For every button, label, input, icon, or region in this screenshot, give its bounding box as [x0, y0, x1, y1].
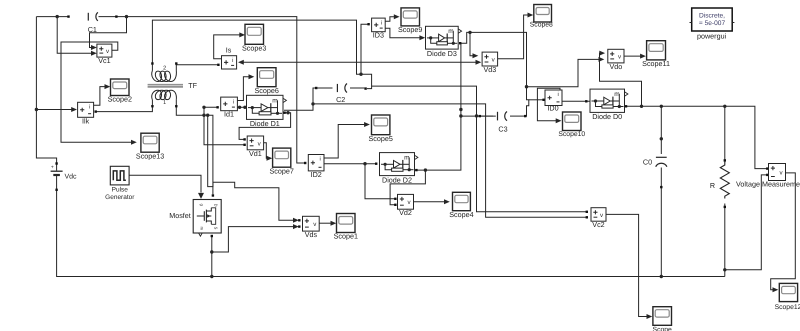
wire C1 top net: [36, 15, 304, 163]
wire Is i output to Scope3: [214, 32, 245, 58]
wire Mosfet source to Vds minus: [212, 224, 301, 252]
svg-text:D: D: [214, 204, 219, 207]
svg-text:R: R: [710, 181, 715, 190]
diode block D2: [380, 153, 418, 185]
wire Vc2 output to bottom Scope: [606, 214, 652, 319]
wire Vd3 output to Scope8: [498, 13, 534, 59]
svg-text:ID3: ID3: [373, 31, 384, 40]
svg-text:Scope9: Scope9: [398, 25, 422, 34]
wire Ilk plus input: [36, 107, 77, 112]
voltage measurement Vdo: [608, 49, 624, 71]
wire branch to Vd3 plus: [470, 32, 478, 58]
wire Diode D0 cathode rail: [625, 105, 769, 170]
capacitor C0: [643, 157, 667, 167]
svg-text:Scope10: Scope10: [558, 131, 585, 138]
svg-text:Scope11: Scope11: [642, 59, 670, 68]
svg-text:+: +: [51, 165, 54, 171]
svg-text:Pulse: Pulse: [112, 187, 129, 194]
wire ID2 i output to Scope5: [324, 122, 370, 158]
wire branch to ID3 plus: [361, 23, 370, 74]
capacitor C1: [88, 12, 98, 34]
wire Diode D1 cathode to C2 net: [284, 87, 317, 110]
wire Vc1 plus input: [90, 17, 127, 50]
wire Diode D3 cathode loop: [459, 31, 529, 118]
wire VM minus: [725, 174, 769, 270]
wire Pulse Generator to Mosfet gate: [129, 175, 204, 199]
svg-text:Scope: Scope: [653, 327, 672, 331]
scope Scope12: [775, 283, 800, 310]
svg-text:Vdo: Vdo: [610, 62, 623, 71]
svg-text:i: i: [232, 57, 233, 64]
svg-text:Voltage Measurement: Voltage Measurement: [736, 180, 800, 189]
wire Ilk minus to TF winding1 left: [95, 105, 154, 113]
powergui block: [690, 8, 735, 41]
dc source Vdc: [51, 162, 77, 191]
diode block D3: [426, 26, 462, 58]
diode block D0: [590, 89, 628, 121]
current measurement ID3: [372, 18, 386, 40]
svg-text:Scope4: Scope4: [449, 210, 473, 219]
wire branch to Vds plus: [208, 115, 301, 223]
svg-text:Generator: Generator: [105, 194, 135, 201]
svg-text:Scope2: Scope2: [108, 95, 132, 104]
current measurement ID2: [308, 155, 324, 179]
resistor R: [710, 163, 729, 199]
current measurement ID0: [545, 90, 562, 113]
capacitor C2: [317, 84, 365, 105]
wire TF top-right to Is: [175, 62, 219, 66]
scope Scope8: [530, 5, 553, 29]
wire ground rail bottom: [57, 191, 725, 279]
svg-text:i: i: [381, 19, 382, 26]
wire ID0 minus to Diode D0: [562, 100, 594, 102]
wire C0 top lead: [660, 106, 663, 154]
wire branch to Vd1 minus: [204, 107, 246, 146]
wire left rail to Vdc: [35, 17, 57, 164]
wire Ilk i output to Scope2: [94, 84, 111, 105]
wire ID3 i output to Scope9: [385, 14, 399, 21]
wire Vd2 output to Scope4: [414, 199, 450, 204]
wire VM output to Scope12: [771, 173, 796, 292]
svg-text:Mosfet: Mosfet: [169, 211, 191, 220]
svg-text:m: m: [272, 98, 277, 105]
scope Scope2: [108, 79, 132, 104]
scope Scope9: [398, 8, 422, 34]
svg-text:2: 2: [163, 65, 166, 71]
voltage measurement Vd3: [482, 52, 498, 74]
svg-text:Vd2: Vd2: [399, 208, 412, 217]
svg-text:m: m: [614, 91, 619, 98]
svg-text:Scope12: Scope12: [775, 304, 800, 311]
svg-text:C1: C1: [88, 25, 97, 34]
wire Vdo minus feed: [527, 57, 605, 87]
wire Vc1 minus input: [57, 17, 97, 56]
svg-text:Vd1: Vd1: [249, 149, 262, 158]
wire TF top-left up and across: [151, 20, 371, 90]
svg-text:1: 1: [163, 100, 166, 106]
svg-text:i: i: [558, 91, 559, 98]
svg-text:C0: C0: [643, 158, 652, 167]
scope Scope13: [136, 133, 164, 160]
current measurement Is: [222, 46, 237, 70]
wire C2 bottom long line: [313, 104, 588, 219]
svg-text:Scope5: Scope5: [369, 134, 393, 143]
svg-text:m: m: [448, 28, 453, 35]
svg-text:Vc2: Vc2: [592, 220, 604, 229]
svg-text:Ilk: Ilk: [82, 116, 90, 125]
current measurement Id1: [221, 97, 238, 119]
wire to Vdo plus: [599, 51, 641, 107]
wire Id1 minus to Diode D1: [237, 106, 246, 109]
svg-text:Id1: Id1: [224, 110, 234, 119]
scope Scope7: [270, 148, 294, 175]
wire Vdo output to Scope11: [624, 54, 646, 59]
scope Scope6: [255, 68, 279, 95]
wire Vc2 plus feed: [372, 86, 588, 213]
svg-text:g: g: [200, 204, 205, 206]
scope Scope3: [242, 24, 266, 52]
voltage measurement Vds: [303, 216, 320, 239]
wire Vds output to Scope1: [319, 221, 336, 226]
svg-text:Vc1: Vc1: [98, 56, 110, 65]
svg-text:= 5e-007: = 5e-007: [699, 20, 726, 27]
mosfet Q1: [169, 200, 221, 237]
voltage measurement Vd2: [398, 194, 414, 217]
svg-text:Diode D2: Diode D2: [382, 175, 412, 184]
voltage measurement Vc1: [97, 44, 112, 65]
capacitor C3: [479, 112, 525, 134]
wire R bottom lead: [723, 204, 726, 277]
wire ID0 i loop to Scope10: [537, 88, 561, 123]
wire Diode D2 cathode net: [415, 43, 463, 172]
svg-text:Scope6: Scope6: [255, 86, 279, 95]
scope bottom Scope: [653, 307, 672, 331]
svg-text:Vd3: Vd3: [484, 65, 497, 74]
wire C0 bottom lead: [660, 168, 663, 279]
voltage measurement Vc2: [591, 208, 606, 230]
wire Vc1 output to Scope13: [61, 42, 137, 145]
voltage measurement Vd1: [247, 136, 263, 158]
transformer TF: [148, 65, 198, 106]
svg-text:TF: TF: [188, 81, 197, 90]
wire Diode D1 cathode to Vd1 plus: [239, 111, 291, 141]
scope Scope11: [642, 41, 670, 68]
wire Id1 i output to Scope6: [237, 74, 254, 100]
svg-text:i: i: [233, 98, 234, 105]
wire branch to Id1 plus: [202, 106, 218, 116]
svg-text:Discrete,: Discrete,: [699, 12, 725, 19]
svg-text:C3: C3: [498, 125, 507, 134]
svg-text:ID2: ID2: [311, 170, 322, 179]
wire to ID0 plus: [529, 99, 545, 101]
wire Vd1 output to Scope7: [264, 143, 273, 161]
scope Scope10: [558, 112, 585, 138]
svg-text:Diode D3: Diode D3: [427, 49, 457, 58]
svg-text:C2: C2: [336, 95, 345, 104]
wire branch to Vd2 minus: [390, 170, 425, 206]
svg-text:Scope3: Scope3: [242, 44, 266, 53]
svg-text:i: i: [320, 156, 321, 163]
svg-text:Scope8: Scope8: [530, 22, 553, 29]
svg-text:ID0: ID0: [547, 104, 558, 113]
svg-text:powergui: powergui: [697, 32, 727, 41]
wire ID2 minus to Diode D2: [304, 162, 377, 166]
wire C3 left lead: [461, 115, 496, 117]
wire Is to Vd3 long line: [238, 60, 481, 65]
svg-text:Vds: Vds: [305, 230, 318, 239]
svg-text:m: m: [404, 155, 409, 162]
svg-text:Diode D0: Diode D0: [592, 112, 622, 121]
svg-text:Is: Is: [226, 46, 232, 55]
svg-text:Vdc: Vdc: [65, 172, 78, 180]
svg-text:Scope1: Scope1: [334, 232, 358, 241]
wire ID3 minus to Diode D3: [385, 28, 425, 40]
scope Scope5: [369, 115, 393, 143]
pulse generator: [105, 166, 135, 201]
wire branch to Vd2 plus: [365, 164, 397, 200]
svg-text:S: S: [214, 227, 219, 230]
svg-text:Scope13: Scope13: [136, 151, 164, 160]
svg-text:Scope7: Scope7: [270, 166, 294, 175]
svg-text:i: i: [89, 104, 90, 111]
wire R top lead: [724, 106, 726, 163]
voltage measurement block VM: [736, 164, 800, 189]
scope Scope1: [334, 214, 358, 241]
current measurement Ilk: [78, 102, 94, 125]
scope Scope4: [449, 192, 473, 219]
wire TF bottom-right net: [175, 105, 214, 197]
svg-text:Diode D1: Diode D1: [250, 119, 280, 128]
wire Mosfet source down to rail: [210, 235, 213, 277]
diode block D1: [247, 95, 287, 128]
